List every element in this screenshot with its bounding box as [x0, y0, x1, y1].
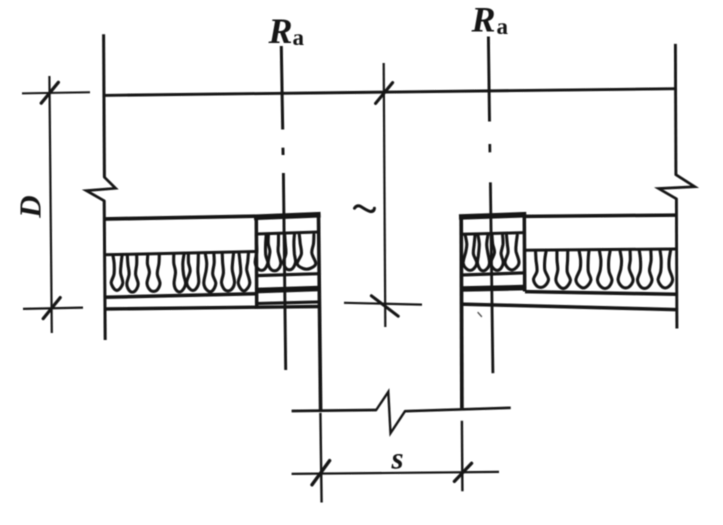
right wall line lower	[675, 199, 678, 329]
left slab top line	[104, 216, 255, 219]
dimension D top tick	[41, 82, 58, 103]
dimension D bottom tick	[43, 298, 60, 319]
left wall line lower	[104, 201, 105, 340]
top chord line	[103, 89, 676, 96]
left rib inner line 1	[256, 232, 319, 234]
left wall line	[102, 34, 106, 177]
right rib right edge	[523, 215, 527, 292]
left rib insulation hatch	[255, 235, 316, 271]
right rib insulation hatch	[463, 235, 519, 271]
dimension l bottom tick	[371, 296, 398, 316]
dimension l line	[384, 63, 386, 327]
dust speck	[478, 313, 482, 317]
dimension s right tick	[454, 463, 471, 481]
right rib inner line 1	[461, 233, 524, 235]
right slab bottom line	[460, 304, 676, 310]
right rib top thick line	[459, 215, 526, 217]
right slab hatch bottom line	[525, 292, 676, 295]
right slab insulation hatch	[533, 251, 672, 289]
right rib inner line 2	[461, 273, 524, 275]
dimension s left tick	[312, 461, 330, 485]
dimension s extension left	[320, 413, 321, 503]
left slab hatch top line	[104, 252, 256, 255]
svg-text:a: a	[497, 14, 509, 39]
right centerline lower	[490, 182, 493, 373]
left slab bottom line	[104, 307, 320, 310]
right slab hatch top line	[524, 249, 676, 250]
svg-text:s: s	[391, 441, 404, 476]
svg-text:D: D	[13, 195, 48, 218]
left rib centerline (load line)	[281, 46, 282, 130]
dimension l bottom extension	[344, 303, 422, 305]
dimension D line	[49, 76, 51, 333]
left rib thick line	[256, 289, 319, 291]
rib soffit line right segment	[405, 408, 511, 411]
svg-text:R: R	[268, 11, 293, 51]
label l	[355, 206, 375, 212]
left rib inner line 2	[256, 274, 319, 276]
right rib left edge and stem	[459, 215, 463, 409]
rib soffit break symbol	[376, 392, 405, 433]
left rib right edge and stem	[319, 215, 321, 410]
svg-text:a: a	[293, 25, 305, 50]
svg-text:R: R	[471, 0, 496, 40]
left rib top thick line	[254, 215, 321, 218]
dimension l top tick	[376, 83, 393, 104]
right centerline dash	[488, 144, 491, 152]
right rib centerline (load line)	[488, 37, 489, 122]
left rib left edge	[255, 215, 259, 309]
left rib inner line 3	[255, 302, 319, 304]
left slab hatch bottom line	[104, 294, 256, 298]
right slab top line	[525, 215, 676, 216]
left slab insulation hatch	[111, 252, 250, 292]
right wall line	[674, 44, 677, 175]
right rib thick line	[461, 288, 524, 289]
rib soffit line left segment	[292, 410, 377, 411]
dimension D top extension	[22, 92, 90, 93]
right wall break symbol	[659, 175, 695, 199]
left centerline dash	[281, 148, 284, 155]
left centerline lower	[283, 173, 285, 370]
dimension s extension right	[461, 421, 464, 492]
dimension s line	[292, 472, 499, 474]
left wall break symbol	[86, 177, 115, 201]
dimension D bottom extension	[23, 308, 83, 309]
